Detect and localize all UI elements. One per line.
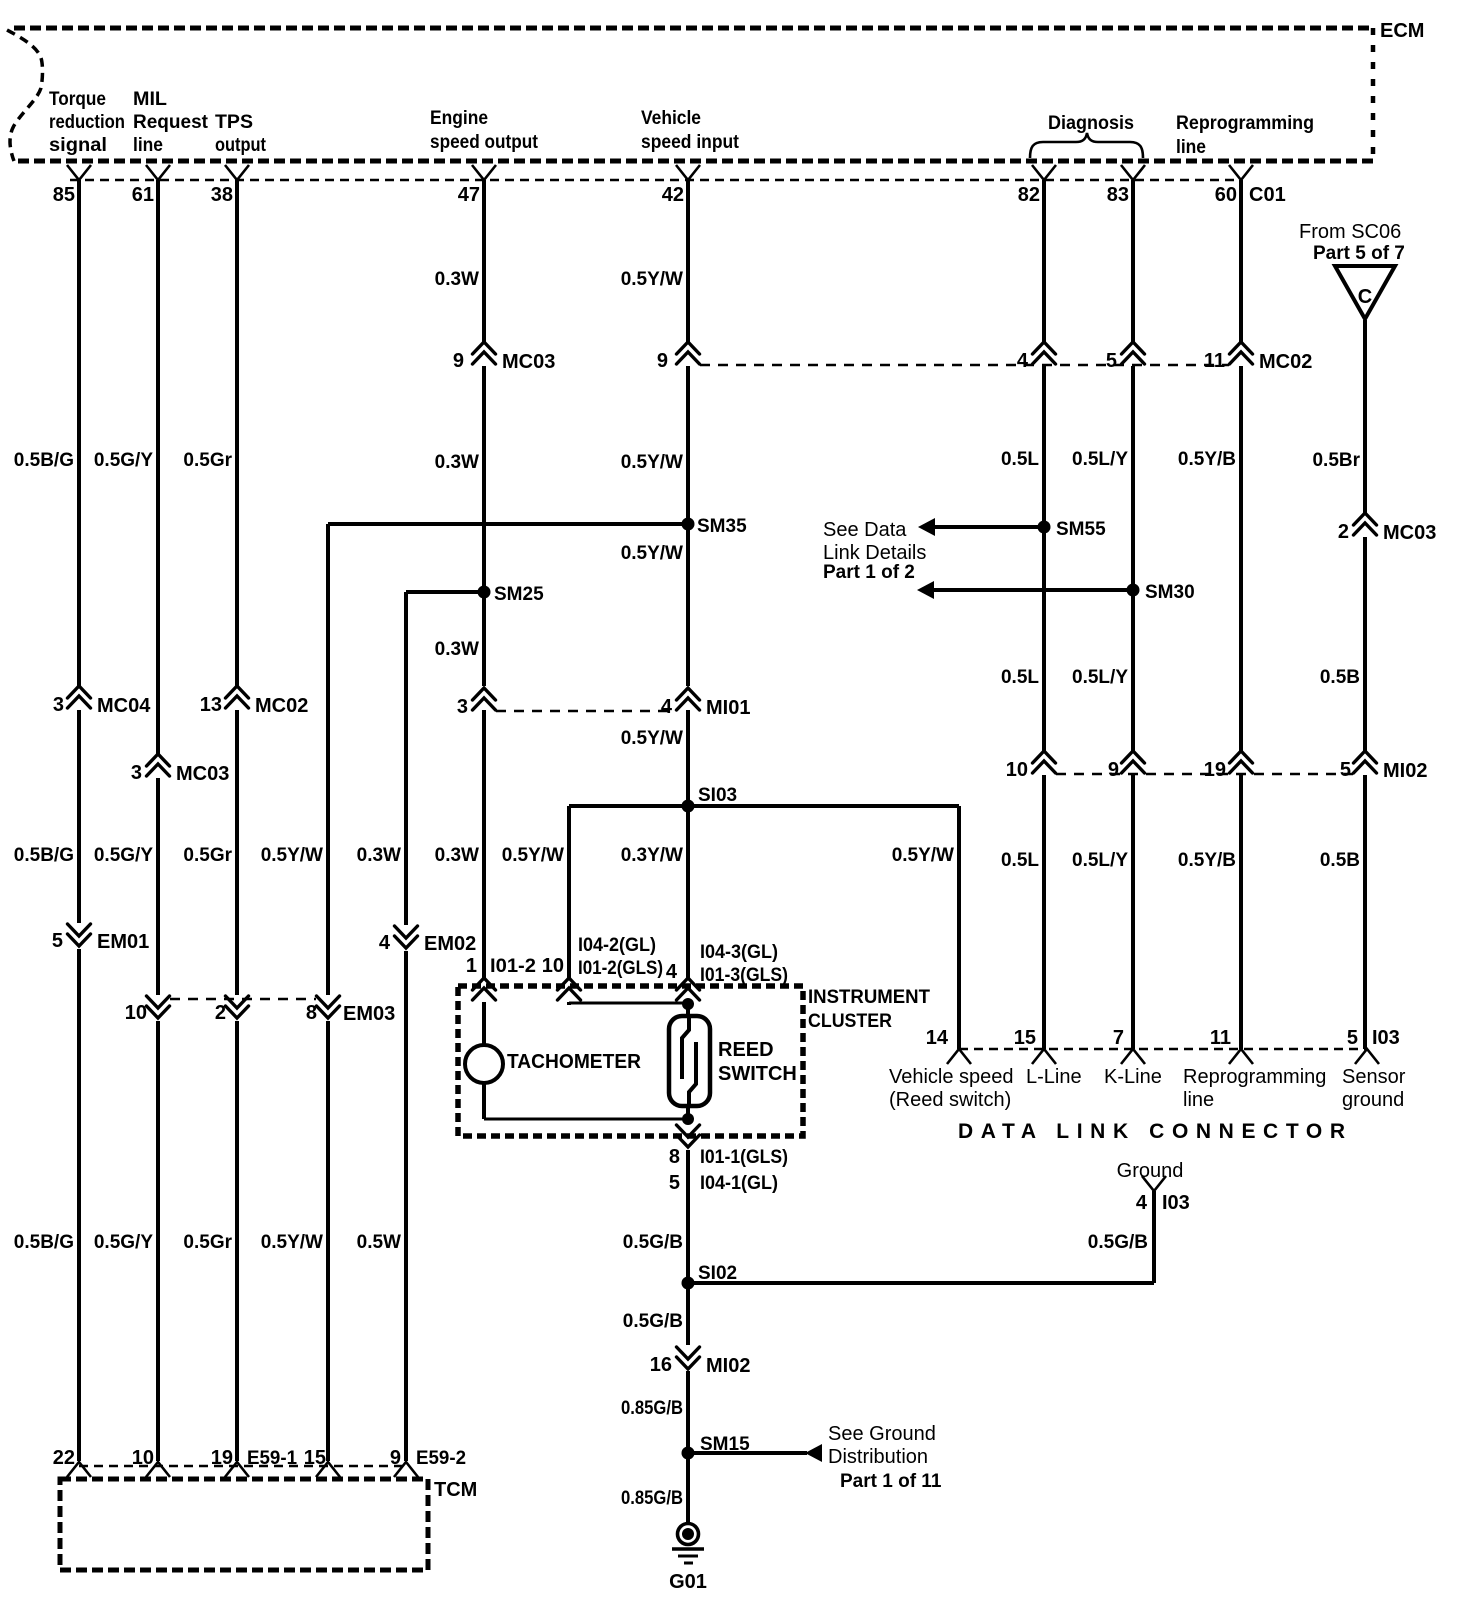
svg-text:SI02: SI02 (698, 1263, 737, 1284)
label: Reprogramming line (1176, 113, 1314, 158)
DLC ground pin 4 I03 (1117, 1160, 1190, 1214)
connector cluster pins 8 I01-1(GLS) / 5 I04-1(GL) (669, 1125, 788, 1194)
svg-text:line: line (1176, 137, 1206, 158)
svg-text:EM02: EM02 (424, 933, 476, 955)
TCM pin 9 (390, 1447, 466, 1477)
dashed connector link at EM03 row (170, 998, 316, 1001)
svg-text:I04-1(GL): I04-1(GL) (700, 1173, 778, 1194)
svg-text:8: 8 (669, 1146, 680, 1168)
label: Vehicle speed input (641, 108, 740, 153)
arrow: see data link details (from SM55) (918, 518, 1044, 536)
wire: DLC ground pin 4 I03 0.5G/B (1152, 1191, 1156, 1283)
svg-text:From SC06: From SC06 (1299, 221, 1401, 243)
svg-text:MC02: MC02 (1259, 351, 1312, 373)
svg-text:Reprogramming: Reprogramming (1176, 113, 1314, 134)
svg-text:EM01: EM01 (97, 931, 149, 953)
svg-text:0.5Y/W: 0.5Y/W (892, 845, 954, 866)
svg-text:11: 11 (1204, 350, 1225, 372)
DLC pin 5 (1342, 1027, 1406, 1111)
svg-text:0.5Y/W: 0.5Y/W (621, 452, 683, 473)
svg-text:0.5B/G: 0.5B/G (14, 845, 74, 866)
svg-text:0.3W: 0.3W (435, 269, 479, 290)
connector connector pin 9 (inline, up) (1108, 751, 1145, 781)
svg-text:85: 85 (53, 184, 75, 206)
svg-text:SM25: SM25 (494, 584, 544, 605)
svg-text:4: 4 (1017, 350, 1029, 372)
svg-text:0.5Y/W: 0.5Y/W (261, 1232, 323, 1253)
svg-text:I03: I03 (1162, 1192, 1190, 1214)
dashed connector link at MC02 row (700, 364, 1229, 367)
svg-text:MC02: MC02 (255, 695, 308, 717)
svg-text:0.5Y/B: 0.5Y/B (1178, 449, 1236, 470)
connector EM02 pin 4 (inline, down) (379, 926, 476, 955)
connector MC02 pin 11 (inline, up) (1204, 342, 1313, 373)
svg-text:0.5L/Y: 0.5L/Y (1072, 449, 1128, 470)
svg-text:0.5Y/W: 0.5Y/W (621, 269, 683, 290)
svg-text:2: 2 (1338, 521, 1349, 543)
arrow: see ground distribution (from SM15) (688, 1444, 822, 1462)
svg-text:(Reed switch): (Reed switch) (889, 1089, 1011, 1111)
pin 38 of connector C01 (211, 165, 249, 206)
svg-text:I01-1(GLS): I01-1(GLS) (700, 1147, 788, 1168)
wire: sensor ground 0.5Br/0.5B (from C to DLC 5) (1363, 320, 1367, 1049)
wire: branch from SM25 to TCM 9 (404, 592, 408, 1461)
svg-text:MI01: MI01 (706, 697, 750, 719)
svg-text:Reprogramming: Reprogramming (1183, 1066, 1326, 1088)
svg-text:0.5Y/W: 0.5Y/W (621, 543, 683, 564)
connector EM03 pin 8 (inline, down) (306, 996, 395, 1025)
svg-text:Engine: Engine (430, 108, 488, 129)
svg-text:I04-2(GL): I04-2(GL) (578, 935, 656, 956)
svg-text:SM55: SM55 (1056, 519, 1106, 540)
svg-text:signal: signal (49, 135, 107, 156)
svg-text:SM35: SM35 (697, 516, 747, 537)
svg-text:0.3W: 0.3W (435, 639, 479, 660)
svg-text:0.5G/B: 0.5G/B (1088, 1232, 1148, 1253)
svg-text:MC04: MC04 (97, 695, 151, 717)
svg-text:Distribution: Distribution (828, 1446, 928, 1468)
svg-text:0.5B: 0.5B (1320, 850, 1360, 871)
ground G01 (669, 1524, 707, 1594)
brace under Diagnosis (1030, 133, 1143, 158)
svg-text:0.5Gr: 0.5Gr (183, 1232, 232, 1253)
connector connector pin 9 (inline, up) (657, 342, 700, 372)
svg-text:0.5L: 0.5L (1001, 667, 1039, 688)
svg-text:0.5L/Y: 0.5L/Y (1072, 850, 1128, 871)
tachometer (instrument) (465, 1045, 642, 1083)
svg-text:0.5Gr: 0.5Gr (183, 450, 232, 471)
ECM module box (dashed) (7, 28, 1373, 161)
junction SI03 (682, 785, 738, 813)
TCM pin 22 (53, 1447, 91, 1477)
junction at reed switch bottom (682, 1113, 694, 1125)
TCM connector line (dashed) (79, 1465, 409, 1468)
svg-text:Sensor: Sensor (1342, 1066, 1406, 1088)
svg-text:MIL: MIL (133, 89, 167, 110)
TCM pin 10 (132, 1447, 170, 1477)
svg-text:MC03: MC03 (176, 763, 229, 785)
connector C01 line (dashed) (70, 179, 1241, 182)
wire: branch SI03 to DLC 14 (957, 806, 961, 1049)
dashed connector link at MI02 row (1056, 773, 1353, 776)
label: MIL Request line (133, 89, 209, 156)
svg-text:CLUSTER: CLUSTER (808, 1011, 892, 1032)
connector cluster pin 10 I04-2(GL)/I01-2(GLS) (542, 935, 663, 1000)
svg-text:I03: I03 (1372, 1027, 1400, 1049)
wire: branch from SM35 to TCM 15 (326, 524, 330, 1461)
svg-text:9: 9 (453, 350, 464, 372)
svg-text:K-Line: K-Line (1104, 1066, 1162, 1088)
connector connector pin 3 (inline, up) (457, 688, 496, 718)
svg-text:0.5Y/B: 0.5Y/B (1178, 850, 1236, 871)
svg-text:L-Line: L-Line (1026, 1066, 1082, 1088)
svg-text:10: 10 (542, 955, 564, 977)
pin 83 of connector C01 (1107, 165, 1145, 206)
svg-text:C01: C01 (1249, 184, 1286, 206)
svg-text:0.85G/B: 0.85G/B (621, 1398, 683, 1419)
svg-text:Part 1 of 11: Part 1 of 11 (840, 1471, 942, 1492)
svg-text:E59-2: E59-2 (416, 1448, 466, 1469)
svg-text:47: 47 (458, 184, 480, 206)
svg-text:5: 5 (1347, 1027, 1358, 1049)
DLC pin 11 (1183, 1027, 1326, 1111)
svg-text:See Ground: See Ground (828, 1423, 936, 1445)
svg-text:9: 9 (1108, 759, 1119, 781)
connector MI02 pin 16 (inline, down) (650, 1347, 751, 1377)
svg-text:reduction: reduction (49, 112, 125, 133)
svg-text:19: 19 (1204, 759, 1226, 781)
wire: torque reduction signal 0.5B/G (pin 85 to TCM 22) (77, 180, 81, 1461)
connector MC02 pin 13 (inline, up) (200, 686, 309, 717)
wire: diagnosis K-line 0.5L/Y (pin 83 to DLC 7) (1131, 180, 1135, 1049)
svg-text:TACHOMETER: TACHOMETER (507, 1051, 642, 1073)
svg-text:42: 42 (662, 184, 684, 206)
svg-text:0.5Gr: 0.5Gr (183, 845, 232, 866)
pin 47 of connector C01 (458, 165, 496, 206)
svg-text:MC03: MC03 (502, 351, 555, 373)
TCM module box (dashed) (60, 1479, 428, 1570)
connector MI01 pin 4 (inline, up) (661, 688, 751, 719)
svg-text:0.5L: 0.5L (1001, 449, 1039, 470)
svg-text:TPS: TPS (215, 112, 253, 133)
connector connector pin 19 (inline, up) (1204, 751, 1253, 781)
junction SM15 (682, 1434, 751, 1460)
svg-text:0.5B/G: 0.5B/G (14, 450, 74, 471)
svg-text:output: output (215, 135, 267, 156)
svg-text:Request: Request (133, 112, 209, 133)
svg-text:TCM: TCM (434, 1479, 477, 1501)
junction SM25 (478, 584, 545, 605)
svg-text:5: 5 (669, 1172, 680, 1194)
wire: SI02 horizontal to I03 ground (688, 1281, 1154, 1285)
instrument cluster box (dashed) (458, 986, 803, 1136)
svg-text:0.85G/B: 0.85G/B (621, 1488, 683, 1509)
connector MC03 pin 9 (inline, up) (453, 342, 555, 373)
junction SI02 (682, 1263, 738, 1290)
svg-text:SWITCH: SWITCH (718, 1063, 797, 1085)
svg-text:SI03: SI03 (698, 785, 737, 806)
connector connector pin 10 (inline, up) (1006, 751, 1056, 781)
label: See Ground Distribution Part 1 of 11 (828, 1423, 942, 1492)
svg-text:10: 10 (125, 1002, 147, 1024)
dashed connector link 3 to MI01 (496, 710, 676, 713)
svg-text:10: 10 (1006, 759, 1028, 781)
connector connector pin 5 (inline, up) (1106, 342, 1145, 372)
label: TPS output (215, 112, 267, 156)
svg-text:7: 7 (1113, 1027, 1124, 1049)
svg-text:5: 5 (52, 930, 63, 952)
svg-text:4: 4 (661, 696, 673, 718)
svg-text:0.5G/Y: 0.5G/Y (94, 1232, 153, 1253)
svg-text:G01: G01 (669, 1571, 707, 1593)
junction SM55 (1038, 519, 1107, 540)
DLC pin 7 (1104, 1027, 1162, 1088)
svg-text:I01-3(GLS): I01-3(GLS) (700, 965, 788, 986)
off-page reference C (From SC06) (1299, 221, 1405, 319)
wire: SI03 horizontal (569, 804, 959, 808)
wire: cluster internal horizontal (pin 10 to reed) (569, 1002, 688, 1005)
svg-text:5: 5 (1340, 759, 1351, 781)
svg-text:speed output: speed output (430, 132, 539, 153)
svg-text:Diagnosis: Diagnosis (1048, 113, 1134, 134)
connector connector pin 2 (inline, down) (215, 996, 249, 1024)
svg-text:82: 82 (1018, 184, 1040, 206)
svg-text:MI02: MI02 (706, 1355, 750, 1377)
svg-text:See Data: See Data (823, 519, 907, 541)
svg-text:13: 13 (200, 694, 222, 716)
label: INSTRUMENT CLUSTER (808, 987, 930, 1032)
svg-text:16: 16 (650, 1354, 672, 1376)
svg-text:0.5L/Y: 0.5L/Y (1072, 667, 1128, 688)
svg-text:ground: ground (1342, 1089, 1404, 1111)
connector EM01 pin 5 (inline, down) (52, 924, 149, 953)
label: Torque reduction signal (49, 89, 125, 156)
svg-text:9: 9 (657, 350, 668, 372)
pin 61 of connector C01 (132, 165, 170, 206)
wire: MIL request line 0.5G/Y (pin 61 to TCM 10) (156, 180, 160, 1461)
svg-text:Ground: Ground (1117, 1160, 1184, 1182)
svg-text:3: 3 (53, 694, 64, 716)
svg-text:0.3W: 0.3W (435, 452, 479, 473)
svg-text:Torque: Torque (49, 89, 106, 110)
svg-text:0.5Y/W: 0.5Y/W (502, 845, 564, 866)
svg-text:5: 5 (1106, 350, 1117, 372)
svg-text:I01-2(GLS): I01-2(GLS) (578, 958, 663, 979)
connector cluster pin 1 I01-2 (466, 955, 536, 1000)
wire: tachometer to reed bottom horizontal (484, 1118, 688, 1121)
svg-text:83: 83 (1107, 184, 1129, 206)
svg-text:I04-3(GL): I04-3(GL) (700, 942, 778, 963)
svg-text:61: 61 (132, 184, 154, 206)
connector MC03 pin 2 (inline, up) (1338, 513, 1436, 544)
svg-text:0.5B/G: 0.5B/G (14, 1232, 74, 1253)
svg-text:0.3W: 0.3W (435, 845, 479, 866)
svg-text:4: 4 (666, 961, 678, 983)
svg-text:0.5G/Y: 0.5G/Y (94, 845, 153, 866)
svg-text:line: line (133, 135, 163, 156)
connector connector pin 10 (inline, down) (125, 996, 170, 1024)
svg-text:14: 14 (926, 1027, 949, 1049)
svg-text:0.5Y/W: 0.5Y/W (621, 728, 683, 749)
connector connector pin 4 (inline, up) (1017, 342, 1056, 372)
svg-text:MC03: MC03 (1383, 522, 1436, 544)
svg-text:10: 10 (132, 1447, 154, 1469)
svg-text:0.5L: 0.5L (1001, 850, 1039, 871)
svg-text:line: line (1183, 1089, 1214, 1111)
pin 82 of connector C01 (1018, 165, 1056, 206)
svg-text:9: 9 (390, 1447, 401, 1469)
wire: TPS output 0.5Gr (pin 38 to TCM 19) (235, 180, 239, 1461)
label: See Data Link Details Part 1 of 2 (823, 519, 926, 583)
svg-text:4: 4 (1136, 1192, 1148, 1214)
svg-text:38: 38 (211, 184, 233, 206)
connector MC04 pin 3 (inline, up) (53, 686, 151, 717)
svg-text:11: 11 (1210, 1027, 1231, 1049)
pin 42 of connector C01 (662, 165, 700, 206)
label: Engine speed output (430, 108, 539, 153)
TCM pin 15 (304, 1447, 340, 1477)
junction SM35 (682, 516, 748, 537)
svg-text:SM30: SM30 (1145, 582, 1195, 603)
svg-text:Part 5 of 7: Part 5 of 7 (1313, 243, 1405, 264)
svg-text:DATA LINK CONNECTOR: DATA LINK CONNECTOR (958, 1120, 1345, 1143)
svg-text:C: C (1358, 286, 1372, 308)
TCM pin 19 (211, 1447, 298, 1477)
svg-text:I01-2: I01-2 (490, 956, 536, 977)
svg-text:4: 4 (379, 932, 391, 954)
svg-text:15: 15 (1014, 1027, 1036, 1049)
wire: branch SI03 to cluster pin 10 (567, 806, 571, 1005)
svg-text:1: 1 (466, 955, 477, 977)
svg-text:22: 22 (53, 1447, 75, 1469)
wire: engine speed output 0.3W (pin 47 to tachometer) (482, 180, 486, 1119)
svg-text:0.5Br: 0.5Br (1312, 450, 1360, 471)
wire: SM35 horizontal (328, 522, 688, 526)
svg-text:3: 3 (457, 696, 468, 718)
svg-text:Vehicle speed: Vehicle speed (889, 1066, 1014, 1088)
reed switch (669, 1016, 797, 1106)
svg-text:0.5B: 0.5B (1320, 667, 1360, 688)
svg-text:0.5G/B: 0.5G/B (623, 1311, 683, 1332)
junction at reed switch top (682, 998, 694, 1010)
junction SM30 (1127, 582, 1195, 603)
connector cluster pin 4 I04-3(GL)/I01-3(GLS) (666, 942, 788, 1000)
DLC pin 15 (1014, 1027, 1082, 1088)
svg-text:REED: REED (718, 1039, 774, 1061)
svg-text:0.5G/Y: 0.5G/Y (94, 450, 153, 471)
svg-text:3: 3 (131, 762, 142, 784)
svg-text:E59-1: E59-1 (247, 1448, 297, 1469)
data link connector line (dashed) (959, 1048, 1367, 1051)
svg-text:Part 1 of 2: Part 1 of 2 (823, 562, 915, 583)
svg-text:ECM: ECM (1380, 20, 1424, 42)
pin 60 of connector C01 (1215, 165, 1253, 206)
arrow: see data link details (from SM30) (917, 581, 1133, 599)
connector MI02 pin 5 (inline, up) (1340, 751, 1428, 782)
svg-text:0.3W: 0.3W (357, 845, 401, 866)
svg-text:0.3Y/W: 0.3Y/W (621, 845, 683, 866)
svg-text:19: 19 (211, 1447, 233, 1469)
connector MC03 pin 3 (inline, up) (131, 754, 229, 785)
svg-text:15: 15 (304, 1447, 326, 1469)
svg-text:60: 60 (1215, 184, 1237, 206)
svg-text:0.5Y/W: 0.5Y/W (261, 845, 323, 866)
pin 85 of connector C01 (53, 165, 91, 206)
wire: reprogramming line 0.5Y/B (pin 60 to DLC 11) (1239, 180, 1243, 1049)
wire: vehicle speed input 0.5Y/W (pin 42 to reed switch and G01) (686, 180, 690, 1524)
DLC pin 14 (889, 1027, 1014, 1111)
svg-text:2: 2 (215, 1002, 226, 1024)
svg-text:0.5W: 0.5W (357, 1232, 401, 1253)
svg-text:INSTRUMENT: INSTRUMENT (808, 987, 930, 1008)
svg-text:EM03: EM03 (343, 1003, 395, 1025)
svg-text:MI02: MI02 (1383, 760, 1427, 782)
svg-text:speed input: speed input (641, 132, 740, 153)
svg-text:Vehicle: Vehicle (641, 108, 701, 129)
wire: SM25 horizontal (406, 590, 484, 594)
svg-text:Link Details: Link Details (823, 542, 926, 564)
wire: diagnosis L-line 0.5L (pin 82 to DLC 15) (1042, 180, 1046, 1049)
svg-text:8: 8 (306, 1002, 317, 1024)
svg-text:0.5G/B: 0.5G/B (623, 1232, 683, 1253)
